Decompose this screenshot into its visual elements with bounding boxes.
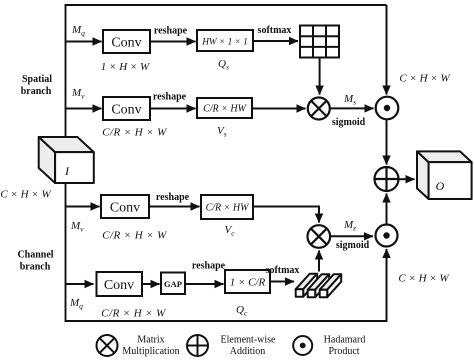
node I: input cube — [39, 137, 94, 183]
wire: trunk to Conv4 (Mq channel) — [66, 283, 94, 285]
svg-text:branch: branch — [20, 262, 51, 273]
wire: Conv4 to GAP — [141, 283, 160, 285]
conv block Conv3 — [101, 195, 149, 218]
svg-text:Channel: Channel — [17, 250, 53, 261]
svg-text:Conv: Conv — [111, 36, 141, 51]
op: matrix multiplication circle (channel) — [308, 225, 331, 248]
wire: Qc box to channel bars, softmax — [270, 281, 294, 283]
wire: lower Hadamard up into addition — [386, 194, 388, 225]
svg-text:Spatial: Spatial — [22, 74, 52, 85]
conv block Conv4 — [97, 272, 143, 296]
svg-text:Product: Product — [328, 346, 359, 357]
node O: output cube — [417, 151, 472, 199]
op: element-wise addition circle — [375, 167, 399, 191]
wire: Vs box to matrix-multiplication circle — [252, 108, 306, 110]
node GAP box — [161, 273, 185, 295]
wire: Conv2 to Vs box, reshape — [150, 108, 196, 110]
node Vc: C/R x HW box — [201, 195, 253, 219]
wire: trunk to Conv3 (Mv channel) — [66, 206, 100, 208]
svg-text:Mv: Mv — [70, 220, 84, 234]
op: Hadamard product circle (spatial) — [376, 97, 399, 120]
node Qs: HW x 1 x 1 box — [197, 30, 253, 51]
svg-text:Conv: Conv — [110, 201, 140, 216]
legend Hadamard product symbol — [293, 336, 312, 355]
svg-text:Mv: Mv — [71, 87, 85, 101]
legend matrix multiplication symbol — [97, 335, 118, 356]
node Vs: C/R x HW box — [197, 98, 252, 118]
svg-text:Hadamard: Hadamard — [324, 335, 366, 346]
svg-text:reshape: reshape — [156, 192, 190, 203]
svg-text:sigmoid: sigmoid — [336, 240, 370, 251]
wire: outer frame bottom border — [65, 320, 388, 322]
wire: bars up into channel multiplication — [318, 251, 320, 272]
svg-text:reshape: reshape — [154, 26, 188, 37]
wire: right vertical from bottom border up into lower Hadamard circle — [386, 249, 388, 321]
wire: Hadamard down into element-wise addition — [386, 120, 388, 165]
svg-text:C/R × HW: C/R × HW — [203, 104, 248, 115]
conv block Conv1 — [103, 30, 150, 53]
op: matrix multiplication circle (spatial) — [308, 98, 330, 120]
wire: outer frame left border / input trunk — [65, 4, 67, 322]
svg-text:HW × 1 × 1: HW × 1 × 1 — [201, 37, 248, 47]
svg-text:Matrix: Matrix — [137, 335, 164, 346]
wire: addition to output cube — [399, 178, 415, 180]
svg-text:softmax: softmax — [258, 25, 292, 36]
svg-text:C/R × H × W: C/R × H × W — [102, 127, 167, 139]
wire: GAP to Qc box, reshape — [185, 283, 224, 285]
svg-text:sigmoid: sigmoid — [332, 117, 366, 128]
svg-text:Qs: Qs — [218, 58, 229, 72]
wire: grid down to matrix-multiplication circle — [319, 58, 321, 95]
svg-text:C/R × H × W: C/R × H × W — [102, 230, 167, 242]
wire: right vertical from top border into first Hadamard circle — [386, 5, 388, 95]
svg-text:1 × H × W: 1 × H × W — [101, 61, 150, 73]
svg-text:softmax: softmax — [266, 265, 300, 276]
svg-text:Multiplication: Multiplication — [122, 346, 179, 357]
svg-text:C × H × W: C × H × W — [399, 73, 450, 85]
svg-text:reshape: reshape — [192, 261, 226, 272]
wire: Qs box to attention grid, softmax — [253, 40, 298, 42]
svg-text:Mq: Mq — [69, 297, 83, 311]
svg-text:C/R × H × W: C/R × H × W — [101, 308, 166, 320]
node: spatial attention map grid 3x3 — [300, 26, 339, 58]
wire: multiplication to Hadamard (Ms, sigmoid) — [330, 107, 374, 109]
conv block Conv2 — [103, 97, 150, 120]
svg-text:C × H × W: C × H × W — [0, 189, 51, 201]
wire: Conv1 to Qs box, reshape — [150, 41, 196, 43]
node Qc: 1 x C/R box — [225, 270, 270, 293]
node: channel attention bars (3 cuboids) — [296, 274, 342, 298]
legend element-wise addition symbol — [187, 335, 208, 356]
wire: trunk to Conv2 (Mv spatial) — [66, 108, 102, 110]
svg-text:reshape: reshape — [153, 92, 187, 103]
wire: Conv3 to Vc box, reshape — [149, 206, 200, 208]
wire: trunk to Conv1 (Mq spatial) — [66, 41, 102, 43]
svg-text:Mq: Mq — [71, 24, 85, 38]
svg-text:GAP: GAP — [164, 279, 182, 289]
op: Hadamard product circle (channel) — [376, 225, 398, 247]
wire: outer frame top border — [65, 4, 387, 6]
svg-text:Vc: Vc — [225, 224, 236, 238]
svg-text:Vs: Vs — [217, 125, 227, 139]
svg-text:branch: branch — [21, 86, 52, 97]
wire: Vc box right then down into channel multiplication — [253, 207, 319, 223]
svg-text:1 × C/R: 1 × C/R — [230, 277, 266, 289]
svg-text:Conv: Conv — [111, 103, 141, 118]
svg-text:Mz: Mz — [343, 219, 356, 233]
wire: channel multiplication to lower Hadamard (Mz, sigmoid) — [330, 235, 373, 237]
svg-text:C/R × HW: C/R × HW — [206, 203, 251, 214]
svg-text:Conv: Conv — [104, 278, 134, 293]
svg-text:Element-wise: Element-wise — [221, 335, 277, 346]
svg-text:O: O — [436, 179, 445, 193]
svg-text:C × H × W: C × H × W — [398, 273, 449, 285]
svg-text:Ms: Ms — [343, 93, 356, 107]
svg-text:Addition: Addition — [230, 346, 266, 357]
svg-text:Qc: Qc — [236, 304, 248, 318]
